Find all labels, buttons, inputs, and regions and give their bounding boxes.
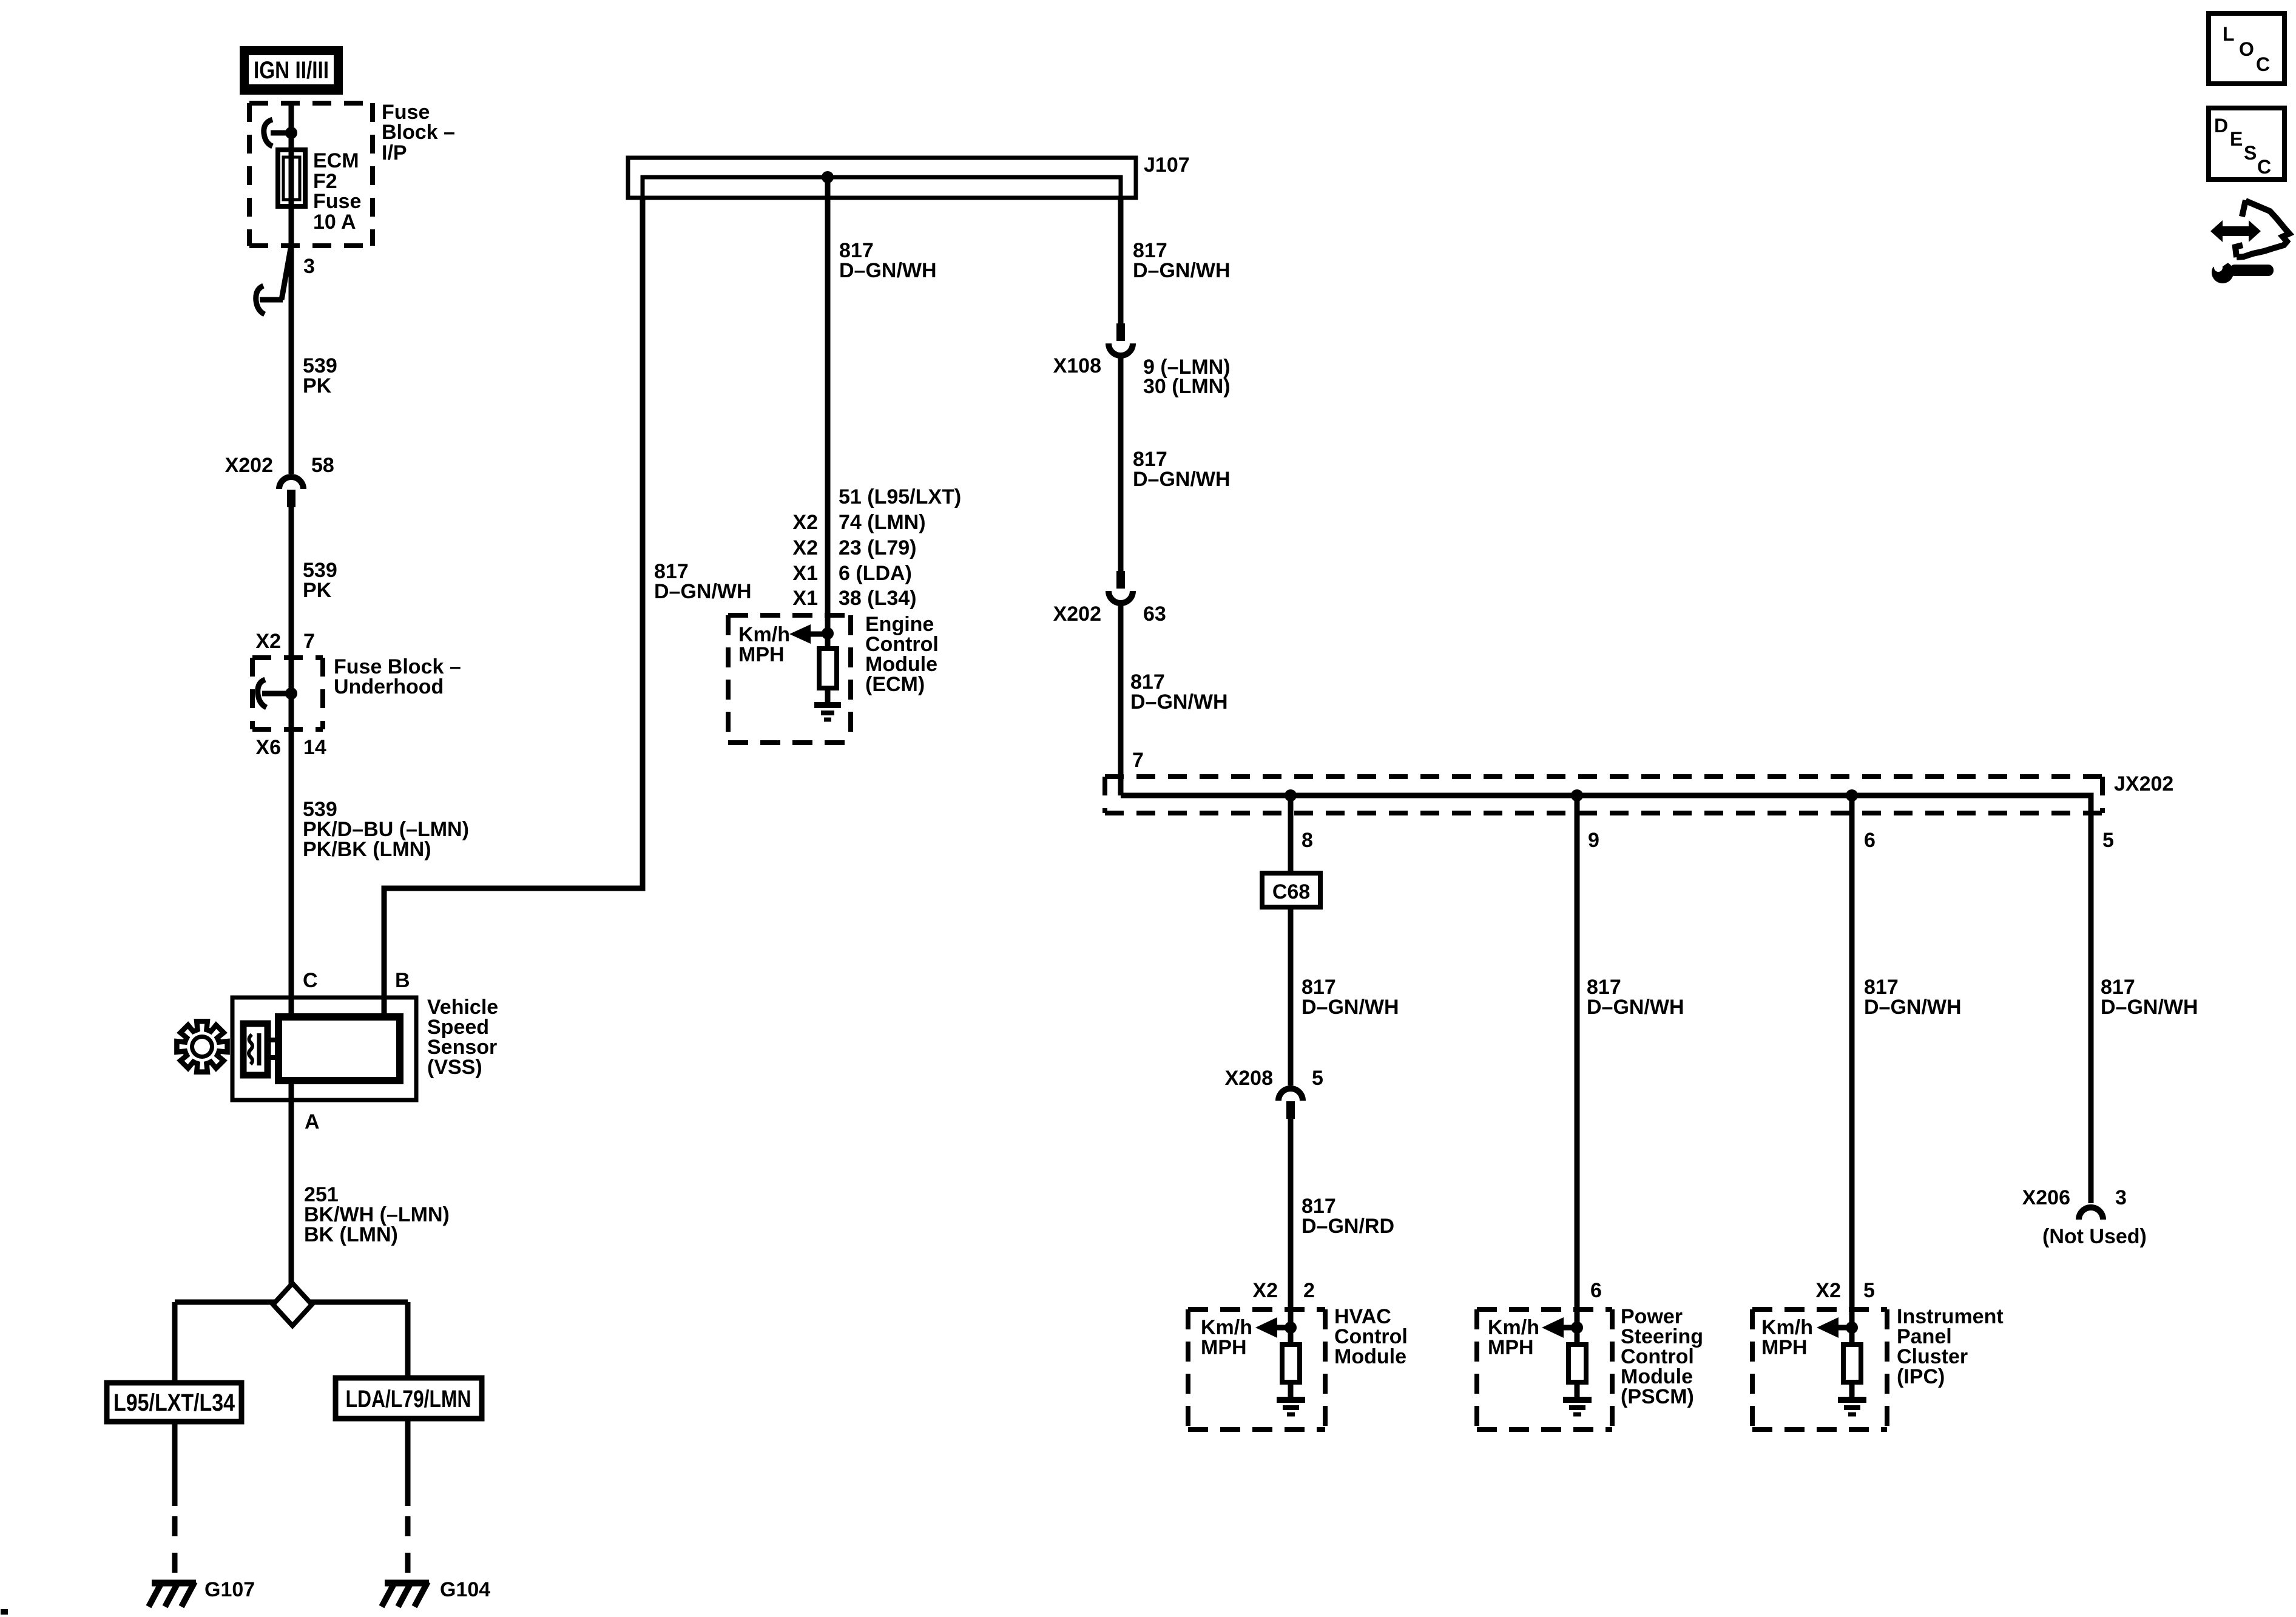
page mark bbox=[1, 1609, 8, 1615]
switch contact hook (upper) bbox=[264, 120, 272, 146]
ECM pin rows bbox=[792, 485, 961, 610]
power steering control module dashed box bbox=[1477, 1309, 1612, 1430]
svg-text:X2: X2 bbox=[255, 630, 281, 653]
ground (PSCM internal) bbox=[1563, 1400, 1592, 1414]
resistor (IPC) bbox=[1843, 1345, 1861, 1382]
svg-text:D: D bbox=[2214, 115, 2228, 137]
svg-text:5: 5 bbox=[1312, 1067, 1323, 1090]
JX202 bus wire bbox=[1121, 795, 2091, 1203]
svg-text:S: S bbox=[2244, 142, 2257, 164]
svg-text:63: 63 bbox=[1143, 603, 1166, 626]
svg-text:D–GN/WH: D–GN/WH bbox=[1302, 996, 1399, 1019]
svg-text:O: O bbox=[2239, 38, 2254, 60]
svg-text:6: 6 bbox=[1864, 829, 1876, 852]
svg-text:74 (LMN): 74 (LMN) bbox=[839, 511, 926, 534]
ground (IPC internal) bbox=[1838, 1400, 1866, 1414]
ground G104 bbox=[382, 1582, 429, 1607]
svg-text:X2: X2 bbox=[792, 511, 818, 534]
switch blade (lower) bbox=[282, 245, 291, 300]
svg-text:7: 7 bbox=[1132, 749, 1144, 772]
svg-text:14: 14 bbox=[303, 736, 326, 759]
wire X208 to HVAC bbox=[1288, 1119, 1294, 1345]
svg-text:6: 6 bbox=[1590, 1279, 1602, 1302]
wire label 817 D-GN/WH (pin9) bbox=[1587, 976, 1684, 1019]
svg-text:MPH: MPH bbox=[1488, 1336, 1534, 1359]
svg-text:E: E bbox=[2230, 128, 2243, 150]
svg-text:I/P: I/P bbox=[382, 141, 407, 164]
wire ignition feed bbox=[289, 103, 294, 474]
engine box LDA/L79/LMN bbox=[336, 1378, 482, 1419]
svg-text:Module: Module bbox=[1334, 1345, 1406, 1368]
wire below LDA box bbox=[405, 1419, 411, 1506]
wire pin6 to IPC bbox=[1849, 795, 1855, 1345]
label Km/h MPH (IPC) bbox=[1761, 1316, 1813, 1359]
wire B branch from J107 bbox=[384, 198, 643, 1017]
power feed box IGN II/III bbox=[240, 46, 343, 95]
wire between X108 and X202 bbox=[1118, 358, 1124, 571]
svg-text:7: 7 bbox=[303, 630, 315, 653]
service icon hand outline bbox=[2235, 200, 2289, 257]
svg-text:C: C bbox=[2256, 53, 2270, 75]
wire ECM branch 817 bbox=[825, 177, 831, 649]
wire to L95 box bbox=[172, 1302, 178, 1383]
connector X208 pin 5 bbox=[1278, 1089, 1303, 1119]
svg-text:X202: X202 bbox=[225, 454, 273, 477]
engine control module ECM dashed box bbox=[728, 615, 851, 743]
wire down to JX202 bbox=[1118, 606, 1124, 795]
wire C68 to X208 bbox=[1288, 907, 1294, 1085]
wire label 539 PK/D-BU bbox=[303, 798, 469, 861]
svg-text:A: A bbox=[305, 1110, 320, 1133]
wire right branch from J107 bbox=[1118, 198, 1124, 323]
label Instrument Panel Cluster (IPC) bbox=[1897, 1305, 2004, 1388]
label Vehicle Speed Sensor (VSS) bbox=[427, 996, 498, 1079]
svg-text:PK: PK bbox=[303, 374, 332, 397]
svg-text:5: 5 bbox=[2102, 829, 2114, 852]
fuse block underhood dashed box bbox=[252, 658, 323, 729]
svg-text:6 (LDA): 6 (LDA) bbox=[839, 562, 912, 585]
svg-text:D–GN/RD: D–GN/RD bbox=[1302, 1215, 1394, 1238]
wire to LDA box bbox=[405, 1302, 411, 1378]
svg-text:D–GN/WH: D–GN/WH bbox=[1133, 468, 1231, 491]
arrow Km/h (ECM) bbox=[789, 624, 834, 644]
junction dot pin 6 bbox=[1846, 789, 1858, 802]
wire label 817 D-GN/WH (pin5) bbox=[2101, 976, 2198, 1019]
svg-text:23 (L79): 23 (L79) bbox=[839, 536, 917, 559]
svg-text:(PSCM): (PSCM) bbox=[1621, 1385, 1694, 1408]
svg-text:10 A: 10 A bbox=[313, 211, 356, 234]
svg-text:D–GN/WH: D–GN/WH bbox=[1130, 690, 1228, 714]
svg-text:D–GN/WH: D–GN/WH bbox=[654, 580, 752, 603]
HVAC control module dashed box bbox=[1188, 1309, 1325, 1430]
splice pack J107 bbox=[628, 158, 1136, 200]
svg-text:Block –: Block – bbox=[382, 121, 455, 144]
service icon arrow bbox=[2210, 220, 2261, 242]
svg-text:D–GN/WH: D–GN/WH bbox=[1133, 259, 1231, 282]
wire label 251 BK/WH bbox=[304, 1183, 450, 1246]
svg-text:JX202: JX202 bbox=[2114, 772, 2173, 795]
svg-text:(VSS): (VSS) bbox=[427, 1056, 482, 1079]
svg-text:51 (L95/LXT): 51 (L95/LXT) bbox=[839, 485, 961, 508]
svg-text:G104: G104 bbox=[440, 1578, 490, 1601]
DESC legend box bbox=[2209, 108, 2284, 180]
instrument panel cluster dashed box bbox=[1752, 1309, 1887, 1430]
label Fuse Block - Underhood bbox=[334, 655, 461, 698]
svg-text:MPH: MPH bbox=[1201, 1336, 1247, 1359]
svg-text:X6: X6 bbox=[255, 736, 281, 759]
wire label 539 PK bbox=[303, 354, 337, 397]
svg-text:X2: X2 bbox=[1252, 1279, 1278, 1302]
connector X108 bbox=[1109, 323, 1133, 356]
splice diamond bbox=[175, 1300, 408, 1305]
svg-text:D–GN/WH: D–GN/WH bbox=[839, 259, 937, 282]
connector X206 pin 3 not used bbox=[2079, 1207, 2103, 1220]
label Km/h MPH (PSCM) bbox=[1488, 1316, 1539, 1359]
ground (ECM internal) bbox=[814, 705, 841, 720]
fuse ECM F2 10A bbox=[278, 150, 305, 206]
wire label 817 D-GN/RD bbox=[1302, 1195, 1394, 1238]
wire pin9 to PSCM bbox=[1575, 795, 1580, 1345]
label Power Steering Control Module (PSCM) bbox=[1621, 1305, 1703, 1408]
splice pack JX202 dashed box bbox=[1105, 777, 2102, 813]
svg-text:C: C bbox=[303, 969, 318, 992]
svg-text:MPH: MPH bbox=[738, 643, 785, 666]
arrow Km/h (HVAC) bbox=[1255, 1317, 1297, 1338]
junction dot on J107 bus bbox=[822, 171, 834, 183]
svg-text:(ECM): (ECM) bbox=[865, 673, 925, 696]
connector X202 pin 58 bbox=[279, 477, 303, 507]
label Engine Control Module (ECM) bbox=[865, 613, 939, 696]
svg-text:MPH: MPH bbox=[1761, 1336, 1808, 1359]
svg-text:5: 5 bbox=[1863, 1279, 1875, 1302]
svg-text:3: 3 bbox=[2115, 1186, 2127, 1209]
svg-text:Underhood: Underhood bbox=[334, 675, 444, 698]
svg-text:X202: X202 bbox=[1053, 603, 1101, 626]
wire 539 PK lower bbox=[289, 507, 294, 1017]
svg-text:38 (L34): 38 (L34) bbox=[839, 587, 917, 610]
svg-text:B: B bbox=[395, 969, 410, 992]
wire label 817 D-GN/WH (pin6) bbox=[1864, 976, 1962, 1019]
svg-text:D–GN/WH: D–GN/WH bbox=[1587, 996, 1684, 1019]
svg-text:Fuse: Fuse bbox=[313, 190, 361, 213]
wire pin8 to C68 bbox=[1288, 795, 1294, 873]
junction dot bbox=[285, 127, 297, 139]
svg-text:X208: X208 bbox=[1225, 1067, 1273, 1090]
junction dot pin 9 bbox=[1571, 789, 1583, 802]
svg-text:(Not Used): (Not Used) bbox=[2042, 1225, 2147, 1248]
svg-text:C68: C68 bbox=[1272, 880, 1310, 903]
svg-text:C: C bbox=[2257, 156, 2271, 178]
svg-text:LDA/L79/LMN: LDA/L79/LMN bbox=[346, 1386, 471, 1413]
svg-text:PK/BK (LMN): PK/BK (LMN) bbox=[303, 838, 431, 861]
resistor (HVAC) bbox=[1282, 1345, 1300, 1382]
svg-text:PK: PK bbox=[303, 579, 332, 602]
ground (HVAC internal) bbox=[1277, 1400, 1305, 1414]
label ECM F2 Fuse 10 A bbox=[313, 149, 361, 234]
svg-text:BK (LMN): BK (LMN) bbox=[304, 1223, 398, 1246]
ground G107 bbox=[149, 1582, 196, 1607]
engine box L95/LXT/L34 bbox=[107, 1383, 241, 1422]
svg-text:X2: X2 bbox=[1815, 1279, 1841, 1302]
wire label 817 D-GN/WH bbox=[1133, 448, 1231, 491]
fuse block I/P dashed box bbox=[249, 103, 373, 246]
svg-text:D–GN/WH: D–GN/WH bbox=[1864, 996, 1962, 1019]
label Km/h MPH (ECM) bbox=[738, 623, 790, 666]
resistor (ECM speed signal) bbox=[819, 649, 837, 688]
connector C68 bbox=[1262, 873, 1320, 907]
svg-text:X206: X206 bbox=[2022, 1186, 2070, 1209]
svg-text:D–GN/WH: D–GN/WH bbox=[2101, 996, 2198, 1019]
svg-text:IGN II/III: IGN II/III bbox=[254, 57, 329, 84]
svg-text:L: L bbox=[2223, 23, 2235, 45]
svg-text:X108: X108 bbox=[1053, 354, 1101, 377]
wire 251 from VSS A bbox=[289, 1081, 294, 1284]
arrow Km/h (IPC) bbox=[1817, 1317, 1858, 1338]
arrow Km/h (PSCM) bbox=[1542, 1317, 1583, 1338]
label Fuse Block - I/P bbox=[382, 101, 455, 164]
gear icon bbox=[177, 1021, 227, 1072]
wire label 817 D-GN/WH (ECM area) bbox=[654, 560, 752, 603]
vehicle speed sensor VSS bbox=[232, 998, 416, 1100]
wire label 817 D-GN/WH (middle) bbox=[839, 239, 937, 282]
wire label 817 D-GN/WH bbox=[1130, 670, 1228, 714]
svg-text:9: 9 bbox=[1588, 829, 1599, 852]
svg-text:3: 3 bbox=[303, 255, 315, 278]
wire label 817 D-GN/WH (pin8) bbox=[1302, 976, 1399, 1019]
svg-text:2: 2 bbox=[1303, 1279, 1315, 1302]
svg-text:L95/LXT/L34: L95/LXT/L34 bbox=[113, 1389, 235, 1416]
connector X202 pin 63 bbox=[1109, 571, 1133, 603]
label Km/h MPH (HVAC) bbox=[1201, 1316, 1252, 1359]
LOC legend box bbox=[2209, 13, 2284, 84]
wire label 539 PK bbox=[303, 559, 337, 602]
svg-text:30 (LMN): 30 (LMN) bbox=[1143, 375, 1231, 398]
svg-text:X1: X1 bbox=[792, 587, 818, 610]
svg-text:G107: G107 bbox=[204, 1578, 255, 1601]
service icon wrench bbox=[2211, 255, 2274, 283]
svg-text:J107: J107 bbox=[1144, 154, 1190, 177]
resistor (PSCM) bbox=[1568, 1345, 1586, 1382]
junction dot pin 8 bbox=[1285, 789, 1297, 802]
svg-text:X1: X1 bbox=[792, 562, 818, 585]
svg-text:8: 8 bbox=[1302, 829, 1313, 852]
wire below L95 box bbox=[172, 1422, 178, 1506]
label HVAC Control Module bbox=[1334, 1305, 1408, 1368]
svg-text:58: 58 bbox=[311, 454, 334, 477]
svg-text:(IPC): (IPC) bbox=[1897, 1365, 1945, 1388]
svg-text:ECM: ECM bbox=[313, 149, 359, 172]
svg-text:X2: X2 bbox=[792, 536, 818, 559]
wire label 817 D-GN/WH (right top) bbox=[1133, 239, 1231, 282]
